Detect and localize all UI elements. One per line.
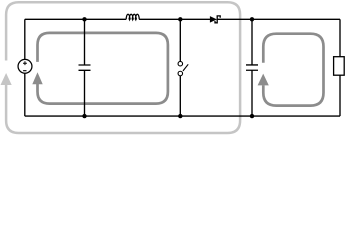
- junction dot: bottom rail / C2: [250, 114, 254, 118]
- switch S1: terminal circle top: [178, 61, 183, 65]
- inductor L: [126, 14, 139, 19]
- capacitor C2 plates: [246, 65, 258, 70]
- resistor R (load): [334, 57, 345, 75]
- wire: right branch lower: [339, 75, 341, 116]
- voltage source V1: [18, 59, 32, 73]
- junction dot: bottom rail / switch: [178, 114, 182, 118]
- wire: output capacitor bottom lead: [251, 70, 253, 116]
- source plus sign: [23, 61, 27, 65]
- source minus sign: [23, 70, 26, 72]
- wire: top rail left segment: [25, 18, 126, 20]
- capacitor C1 plates: [79, 65, 91, 70]
- wire: left branch lower: [24, 74, 26, 117]
- wire: input capacitor top lead: [84, 19, 86, 65]
- switch S1: terminal circle bottom: [178, 71, 183, 76]
- switch S1: blade: [183, 64, 188, 71]
- junction dot: top rail / switch: [178, 17, 182, 21]
- wire: switch bottom lead: [179, 76, 181, 116]
- right current loop (gray): [263, 34, 323, 106]
- wire: output capacitor top lead: [251, 19, 253, 65]
- wire: top rail middle segment: [139, 18, 210, 20]
- junction dot: top rail / C2: [250, 17, 254, 21]
- junction dot: bottom rail / C1: [82, 114, 86, 118]
- inner left loop arrow (up): [32, 72, 42, 84]
- wire: top rail right segment: [217, 18, 340, 20]
- junction dot: top rail / C1: [82, 17, 86, 21]
- wire: switch top lead: [179, 19, 181, 61]
- outer loop arrow (up): [1, 73, 12, 85]
- diode D1 (Schottky): triangle: [210, 16, 217, 23]
- wire: right branch upper: [339, 19, 341, 56]
- right loop arrow (up): [258, 74, 269, 86]
- wire: input capacitor bottom lead: [84, 70, 86, 116]
- inner left current loop (gray): [38, 33, 168, 104]
- diode D1: schottky bar: [215, 16, 220, 23]
- outer current loop (light gray): [6, 2, 240, 133]
- wire: left branch upper: [24, 19, 26, 59]
- black circuit: [18, 14, 344, 116]
- wire: bottom rail: [25, 115, 340, 117]
